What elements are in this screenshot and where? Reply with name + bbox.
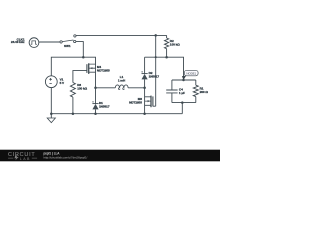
diode D1	[92, 101, 98, 109]
voltage source V1	[45, 76, 57, 88]
svg-text:1 mH: 1 mH	[118, 78, 126, 82]
svg-text:1N5817: 1N5817	[149, 74, 160, 78]
wire C4 top lead	[171, 80, 173, 90]
label L1 value	[118, 75, 126, 83]
label R2 value	[170, 39, 180, 47]
label R1 value	[200, 86, 209, 94]
svg-text:100 kΩ: 100 kΩ	[77, 87, 87, 91]
label R3 value	[77, 83, 87, 91]
label M3	[129, 97, 142, 104]
wire output top link	[172, 79, 196, 81]
wire D1 anode to rail	[95, 110, 97, 114]
label CLK1 value	[11, 37, 25, 44]
wire clock riser to M3 gate	[155, 35, 157, 106]
diode D2	[141, 71, 147, 79]
label V1 value	[60, 78, 65, 86]
node dot L1 right	[143, 87, 146, 90]
wire M4 source down to D1	[95, 64, 97, 104]
transistor M4 (P-MOSFET)	[87, 63, 96, 74]
wire L1 right lead	[128, 87, 145, 89]
node dot riser top	[154, 34, 157, 37]
resistor R2	[165, 35, 169, 57]
node NODE1 flag	[182, 70, 198, 80]
wire L1 left lead	[96, 87, 116, 89]
svg-text:LAB: LAB	[20, 157, 31, 161]
wire V1 bottom to ground	[50, 88, 52, 118]
svg-text:NDT2955: NDT2955	[97, 68, 110, 72]
wire M3 gate lead	[153, 105, 156, 107]
wire bottom link to rail	[181, 103, 183, 114]
resistor R3	[70, 83, 75, 98]
wire top rail from SW1 to R2	[76, 34, 167, 36]
label M4	[97, 65, 110, 72]
label D1 value	[99, 101, 110, 109]
inductor L1	[115, 85, 128, 88]
svg-text:23.40 kHz: 23.40 kHz	[11, 40, 25, 44]
footer logo CIRCUIT LAB	[8, 152, 37, 161]
wire R3 to rail	[72, 97, 74, 114]
node dot R3/rail	[72, 112, 75, 115]
node dot V1/rail	[50, 112, 53, 115]
resistor R1	[193, 80, 198, 103]
node dot M3/rail	[143, 112, 146, 115]
svg-text:NODE1: NODE1	[186, 72, 196, 76]
node dot L1 left	[94, 87, 97, 90]
footer bar	[0, 150, 220, 162]
wire D2 cathode to output node	[144, 57, 146, 73]
wire output bottom link	[172, 102, 196, 104]
node dot throw2 joins V1 wire	[82, 56, 85, 59]
svg-text:200 Ω: 200 Ω	[200, 90, 209, 94]
node dot riser mid	[155, 56, 157, 58]
ground rail wire	[51, 113, 182, 115]
node dot R2 bottom	[165, 56, 168, 59]
wire C4 bottom lead	[171, 93, 173, 103]
wire M4 gate lead	[73, 71, 87, 83]
wire CLK1 to SW1	[39, 41, 60, 43]
svg-text:SW1: SW1	[64, 44, 71, 48]
label D2 value	[149, 71, 160, 78]
capacitor C4	[166, 90, 177, 93]
node dot NODE1	[182, 79, 185, 82]
switch SW1	[60, 35, 76, 43]
node dot bottom link	[181, 101, 184, 104]
wire output node horizontal	[145, 57, 184, 80]
wire throw2 down to V1 node	[76, 42, 83, 58]
wire V1 top to M4 drain	[51, 57, 95, 76]
label C4 value	[179, 87, 185, 95]
svg-text:NDT2955: NDT2955	[129, 101, 142, 105]
node dot D1/rail	[94, 112, 97, 115]
svg-text:100 kΩ: 100 kΩ	[170, 43, 180, 47]
wire D2 anode / M3 drain vertical	[144, 79, 146, 113]
ground	[47, 118, 55, 123]
svg-text:1N5817: 1N5817	[99, 105, 110, 109]
transistor M3 (P-MOSFET)	[145, 96, 153, 108]
svg-text:http://circuitlab.com/c/7dm2f/: http://circuitlab.com/c/7dm2f/pspl1/	[44, 155, 88, 159]
svg-text:1 µF: 1 µF	[179, 91, 185, 95]
clock source CLK1	[29, 38, 39, 48]
